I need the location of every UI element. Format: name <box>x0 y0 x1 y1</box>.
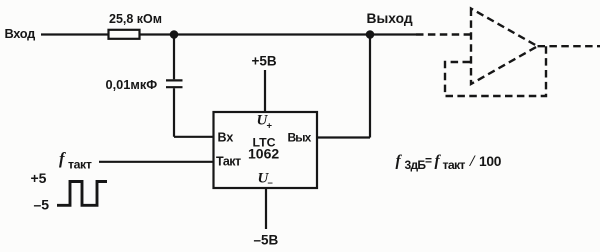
svg-text:такт: такт <box>443 158 466 172</box>
dashed feedback wire <box>445 46 546 96</box>
wire Вых to output node <box>317 35 370 138</box>
dashed wire node to buffer input <box>416 33 471 35</box>
svg-text:–5В: –5В <box>254 233 279 248</box>
wire capacitor to Вх pin <box>174 88 214 137</box>
svg-text:3дБ: 3дБ <box>405 158 427 172</box>
resistor R1 <box>109 30 140 39</box>
svg-text:Выход: Выход <box>367 11 413 26</box>
dashed output wire <box>538 45 600 47</box>
svg-text:Такт: Такт <box>216 155 241 169</box>
svg-text:0,01мкФ: 0,01мкФ <box>106 77 158 92</box>
svg-text:+: + <box>267 121 273 132</box>
op-amp buffer U2 (dashed) <box>471 9 538 85</box>
IC U1 LTC1062 <box>214 112 318 188</box>
clock waveform <box>57 182 107 206</box>
svg-text:+5: +5 <box>31 170 47 186</box>
svg-text:100: 100 <box>479 154 502 169</box>
svg-text:–: – <box>268 178 273 189</box>
junction node Выход <box>366 30 375 39</box>
svg-text:такт: такт <box>68 158 92 172</box>
wire clock <box>99 161 214 163</box>
wire input <box>41 33 108 35</box>
junction node A <box>170 30 179 39</box>
wire node to capacitor <box>173 35 175 80</box>
svg-text:+5В: +5В <box>252 54 277 69</box>
svg-text:Вых: Вых <box>288 131 312 145</box>
svg-text:Вход: Вход <box>5 26 36 41</box>
wire U- supply <box>265 188 267 229</box>
capacitor C1 <box>166 80 183 87</box>
svg-text:25,8 кОм: 25,8 кОм <box>109 12 162 26</box>
wire U+ supply <box>264 70 266 112</box>
svg-text:1062: 1062 <box>248 146 279 162</box>
svg-text:=: = <box>425 154 432 168</box>
wire main top <box>140 33 417 35</box>
svg-text:–5: –5 <box>34 197 50 213</box>
svg-text:Вх: Вх <box>218 131 234 145</box>
